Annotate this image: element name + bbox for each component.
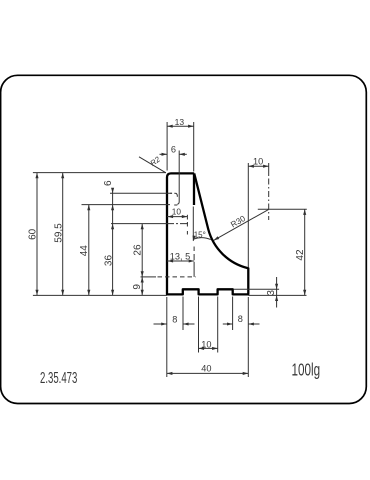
arrowheads [35, 125, 306, 375]
ext line E [110, 192, 172, 194]
svg-text:3: 3 [266, 290, 277, 296]
ext line B [82, 204, 171, 206]
svg-text:26: 26 [133, 244, 144, 256]
svg-text:13, 5: 13, 5 [170, 252, 190, 262]
dim line 8 right [223, 323, 233, 325]
notch level ext right [234, 288, 280, 290]
svg-text:6: 6 [171, 145, 176, 155]
36 [111, 224, 114, 230]
44 [87, 205, 90, 211]
svg-text:10: 10 [253, 157, 263, 167]
svg-text:R30: R30 [229, 213, 248, 229]
svg-text:100lg: 100lg [292, 360, 321, 380]
svg-text:6: 6 [103, 180, 114, 186]
bottom ext line right [248, 294, 306, 296]
svg-text:42: 42 [295, 249, 306, 261]
svg-text:44: 44 [79, 245, 90, 257]
ext line hole edge [177, 151, 179, 205]
dim line 13 [167, 125, 194, 127]
10 inner [168, 215, 174, 218]
40 [167, 372, 173, 375]
center vertical line R30 [268, 163, 270, 176]
ext line C dash-dot [111, 223, 166, 225]
dim line 6 top [160, 153, 168, 155]
top ext lines for 13 [166, 122, 168, 171]
60 [35, 173, 38, 179]
tick at E inside [170, 192, 172, 194]
8 left outside [161, 322, 167, 325]
angle ref line 15 [192, 207, 194, 241]
dim line 10 top right [248, 165, 268, 167]
dim line 13,5 [167, 260, 194, 262]
R2 leader [139, 157, 166, 173]
svg-text:R2: R2 [148, 154, 162, 168]
ext line top (A) [33, 172, 166, 174]
svg-text:10: 10 [201, 340, 211, 350]
10 top right [248, 165, 254, 168]
dim line 59,5 [62, 173, 64, 296]
hidden edge 13,5 vertical [193, 247, 195, 252]
42 [303, 209, 306, 215]
dim line 10 inner [167, 216, 187, 218]
drawing sheet border [1, 75, 367, 403]
svg-text:13: 13 [175, 117, 185, 127]
3 outside [275, 284, 278, 290]
center cross horizontal [258, 208, 307, 210]
dim line 3 [276, 277, 278, 308]
tick at B inside [174, 204, 177, 206]
dim line 44 [88, 205, 90, 296]
dim line 42 [304, 209, 306, 295]
svg-text:60: 60 [27, 228, 38, 240]
13,5 [168, 259, 174, 262]
inner vertical edge [193, 174, 195, 205]
8 right outside [227, 322, 233, 325]
ext line right edge up [247, 163, 249, 268]
6 left outside [111, 188, 114, 194]
svg-text:8: 8 [172, 315, 177, 325]
dim line 40 [167, 372, 249, 374]
svg-text:40: 40 [201, 363, 211, 373]
dim line 8 left [154, 323, 167, 325]
dim line 60 [36, 173, 38, 296]
26 [141, 224, 144, 230]
svg-text:2.35.473: 2.35.473 [40, 368, 77, 386]
angle arc 15 [194, 238, 211, 240]
dimension texts [27, 117, 306, 374]
dim line 6+36 [112, 189, 114, 296]
ext line D hidden [141, 276, 157, 278]
59,5 [61, 173, 64, 179]
centerline of hidden hole [186, 215, 188, 220]
dim line 10 bottom [199, 347, 218, 349]
svg-text:10: 10 [172, 206, 182, 216]
10 bottom [199, 347, 205, 350]
svg-text:9: 9 [132, 284, 143, 290]
R30 leader arrow [213, 236, 219, 241]
15 angle [192, 235, 196, 241]
svg-text:36: 36 [104, 255, 115, 267]
svg-text:59,5: 59,5 [53, 223, 64, 243]
part profile outline [167, 173, 248, 294]
svg-text:8: 8 [238, 314, 243, 324]
R30 leader [214, 209, 269, 240]
13 [167, 125, 173, 128]
6 top outside [162, 153, 168, 156]
svg-text:15°: 15° [194, 230, 206, 239]
dim line 26+9 [141, 224, 143, 296]
9 [141, 277, 144, 283]
bottom ext verticals [166, 297, 168, 377]
bottom ext line left [33, 294, 167, 296]
hook mark hidden drill [174, 193, 177, 197]
